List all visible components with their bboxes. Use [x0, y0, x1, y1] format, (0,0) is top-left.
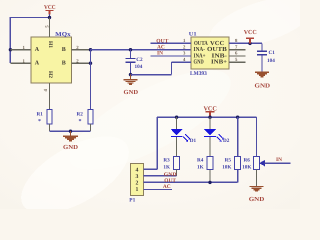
- svg-text:D1: D1: [190, 138, 197, 144]
- wire U1 pin1 (OUT stub): [151, 42, 192, 44]
- op-amp U1 LM393 body: [191, 37, 229, 69]
- resistor R3: [163, 156, 179, 170]
- junction (left vertical / pin A1): [9, 48, 12, 51]
- wire to MQ pin A upper: [10, 49, 31, 51]
- wire vertical up to pin4 line: [171, 62, 173, 74]
- resistor R1: [37, 110, 53, 126]
- capacitor C2: [126, 50, 144, 75]
- svg-text:H2: H2: [47, 71, 53, 78]
- wire AC net (MQ B to U1 pin2): [91, 49, 192, 51]
- wire R4 bottom lead: [209, 170, 211, 183]
- wire bottom of R1-R2: [50, 130, 91, 132]
- svg-text:D2: D2: [223, 138, 230, 144]
- junction (VCC stem / rail): [48, 16, 51, 19]
- power VCC (top left): [44, 4, 56, 14]
- wire U1 pin5 stub: [229, 61, 246, 63]
- junction (rail / D1): [175, 116, 178, 119]
- svg-text:IN: IN: [157, 51, 163, 57]
- wire P1 pin4 to VCC rail: [144, 168, 158, 170]
- capacitor C1: [257, 43, 275, 72]
- svg-text:INB+: INB+: [211, 59, 228, 66]
- gas sensor MQx body: [31, 37, 72, 83]
- svg-text:AC: AC: [163, 184, 171, 190]
- wire left vertical: [9, 17, 11, 63]
- junction (C2 bottom / gnd wire): [129, 73, 132, 76]
- svg-text:10K: 10K: [242, 164, 251, 170]
- svg-text:*: *: [79, 119, 82, 125]
- junction (R4 / OUT net): [208, 181, 211, 184]
- junction (B upper): [89, 48, 92, 51]
- svg-text:GND: GND: [255, 83, 271, 90]
- junction (VCC at pin8): [248, 42, 251, 45]
- connector P1: [131, 164, 144, 196]
- junction (rail / VCC+D2): [208, 116, 211, 119]
- svg-text:AC: AC: [157, 45, 165, 51]
- resistor R2: [77, 110, 94, 126]
- svg-text:A: A: [35, 47, 40, 53]
- svg-text:VCC: VCC: [244, 29, 257, 36]
- power VCC (at U1 pin8): [244, 29, 257, 43]
- svg-text:1K: 1K: [197, 164, 204, 170]
- ground GND (under C2): [124, 75, 139, 96]
- wire B bus down to R2: [90, 50, 92, 110]
- resistor R4: [197, 156, 213, 170]
- svg-text:R2: R2: [77, 111, 84, 117]
- wire U1 pin7 stub: [229, 49, 246, 51]
- wire VCC rail (bottom section): [157, 116, 256, 118]
- wire VCC stem to rail: [49, 14, 51, 18]
- wire to MQ pin A lower: [10, 62, 31, 64]
- potentiometer R6: [242, 156, 265, 170]
- wire U1 pin3 (IN stub): [151, 55, 192, 57]
- svg-text:104: 104: [267, 58, 275, 64]
- svg-text:104: 104: [135, 64, 143, 70]
- LED D1: [171, 117, 191, 156]
- ground GND (under C1): [255, 72, 271, 89]
- svg-text:A: A: [35, 61, 40, 67]
- svg-text:10K: 10K: [222, 164, 231, 170]
- wire P1 pin2 OUT net: [144, 181, 238, 183]
- wire R3 bottom lead: [176, 170, 178, 176]
- wire rail left end down to P1 pin4: [156, 117, 158, 169]
- wire U1 pin6 stub: [229, 55, 246, 57]
- wire C2 bottom to U1 pin4: [131, 74, 172, 76]
- wire R5 bottom lead: [237, 170, 239, 183]
- svg-text:*: *: [38, 119, 41, 125]
- svg-text:R4: R4: [197, 157, 204, 163]
- svg-text:R6: R6: [244, 157, 251, 163]
- wire P1 pin1 AC net: [144, 189, 173, 191]
- power VCC (bottom rail): [203, 105, 217, 117]
- svg-text:1K: 1K: [163, 164, 170, 170]
- svg-text:3: 3: [136, 174, 139, 180]
- wire U1 pin4 (GND): [172, 61, 192, 63]
- svg-text:P1: P1: [129, 197, 135, 203]
- svg-text:MQx: MQx: [55, 32, 70, 38]
- resistor R5: [222, 156, 240, 170]
- ground GND (under R6): [249, 187, 265, 203]
- pin 4 (MQ bottom): [49, 83, 51, 110]
- wire R1 bottom lead: [49, 124, 51, 131]
- svg-text:1: 1: [136, 187, 139, 193]
- svg-text:R5: R5: [225, 157, 232, 163]
- wire MQ pin B upper: [72, 49, 91, 51]
- svg-text:OUT: OUT: [156, 38, 168, 44]
- ground GND (under R1/R2): [63, 131, 79, 151]
- wire P1 pin3 GND net: [144, 175, 177, 177]
- svg-text:B: B: [62, 47, 66, 53]
- junction (rail / R5): [236, 116, 239, 119]
- svg-text:2: 2: [136, 180, 139, 186]
- svg-text:GND: GND: [249, 196, 265, 203]
- svg-text:R1: R1: [37, 111, 44, 117]
- svg-text:C2: C2: [136, 57, 143, 63]
- svg-text:4: 4: [136, 167, 139, 173]
- svg-text:GND: GND: [63, 144, 79, 151]
- svg-text:B: B: [62, 61, 66, 67]
- svg-text:GND: GND: [194, 59, 205, 66]
- wire R6 bottom lead: [256, 170, 258, 187]
- svg-text:C1: C1: [269, 50, 276, 56]
- junction (B lower): [89, 62, 92, 65]
- svg-text:H1: H1: [47, 41, 53, 48]
- wire MQ pin B lower: [72, 62, 91, 64]
- wire R5 top lead: [237, 117, 239, 156]
- svg-text:IN: IN: [276, 157, 282, 163]
- wire IN net: [265, 162, 291, 164]
- junction (GND tap): [69, 130, 72, 133]
- svg-text:LM393: LM393: [190, 71, 207, 77]
- wire top-left horizontal: [10, 17, 49, 19]
- wire U1 pin8 (VCC): [229, 42, 262, 44]
- pin 5 (MQ top): [49, 18, 51, 38]
- svg-text:R3: R3: [163, 157, 170, 163]
- junction (C2 tap): [129, 48, 132, 51]
- wire rail right end down to R6: [256, 117, 258, 156]
- svg-text:GND: GND: [124, 89, 139, 96]
- wire R2 bottom lead: [90, 124, 92, 131]
- LED D2: [204, 117, 224, 156]
